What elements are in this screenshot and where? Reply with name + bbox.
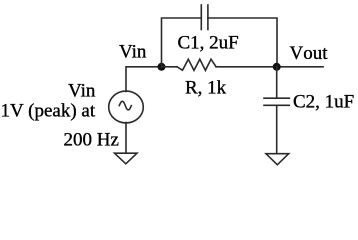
wire top branch right: C1 to node Vout (208, 18, 277, 67)
node Vin junction dot (158, 63, 166, 71)
svg-text:1V (peak) at: 1V (peak) at (1, 101, 96, 122)
svg-text:C1, 2uF: C1, 2uF (178, 33, 239, 54)
resistor R (177, 59, 216, 70)
wire node Vin to resistor (162, 66, 178, 68)
svg-text:Vin: Vin (119, 42, 147, 63)
capacitor C1 (201, 5, 208, 30)
wire source bottom to ground (125, 123, 127, 154)
capacitor C2 (264, 98, 289, 105)
wire node Vout down to C2 (276, 67, 278, 98)
wire source top to node Vin (126, 67, 162, 92)
svg-text:C2, 1uF: C2, 1uF (293, 92, 354, 113)
svg-text:Vin: Vin (68, 81, 96, 102)
voltage source V1 (109, 91, 144, 123)
wire resistor to node Vout and output terminal (216, 66, 323, 68)
ground (right, below C2) (266, 154, 289, 165)
svg-text:R, 1k: R, 1k (185, 78, 227, 99)
ground (left, below source) (115, 153, 138, 164)
node Vout junction dot (273, 63, 281, 71)
svg-text:Vout: Vout (290, 43, 329, 64)
wire top branch left: node up and right to C1 (162, 18, 202, 67)
svg-text:200 Hz: 200 Hz (64, 130, 119, 151)
wire C2 down to ground (276, 105, 278, 153)
